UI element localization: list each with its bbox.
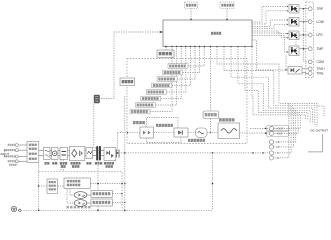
- wire chain rails d: [68, 151, 70, 156]
- label L4 (compensation amp): [133, 121, 136, 124]
- wire chain rails b: [50, 151, 52, 156]
- aux supply block B2a: [47, 179, 57, 193]
- wire input 3 to terminal block: [18, 156, 27, 158]
- relay block K3: [289, 31, 299, 40]
- status terminal strip (dashed): [306, 2, 314, 78]
- wire F7 to U1 bottom: [155, 47, 176, 106]
- wire F2 to U1 bottom: [183, 47, 200, 73]
- label box L1 (delay circuit): [157, 50, 174, 57]
- output terminal -V: [269, 151, 273, 155]
- wire chain rails e: [85, 151, 86, 156]
- wire chain taps to drive: [61, 160, 64, 172]
- wire over-loop B1a to B1b: [147, 118, 179, 129]
- wire sense line S6 (staircase to harness): [252, 47, 306, 120]
- label box B2c: [91, 190, 112, 197]
- breaker block C2: [52, 148, 59, 160]
- wire K1 output to terminal: [299, 8, 308, 10]
- label C3: [60, 162, 62, 165]
- wire harness leg 3 to terminal row: [274, 108, 294, 147]
- wire L3 to feedback row: [210, 119, 212, 133]
- fuse block C1: [44, 148, 51, 160]
- input terminal circle 4: [15, 160, 18, 163]
- svg-text:TMP: TMP: [317, 47, 324, 51]
- rectifier-smoothing block C4: [70, 147, 85, 161]
- wire relay drive 6: [252, 33, 289, 38]
- wire chain rails a: [39, 151, 44, 156]
- relay block K2: [289, 18, 299, 27]
- output terminal +OUT: [269, 126, 273, 130]
- wire relay common bus: [304, 9, 309, 62]
- wire relay3 to relay4 link: [295, 42, 297, 47]
- trigger coupler Q5: [288, 67, 302, 75]
- relay block K1: [289, 5, 299, 14]
- wire U1 to L3: [210, 47, 212, 112]
- svg-text:LOW: LOW: [317, 20, 324, 24]
- net flag box SIG2 (dashed label, top): [220, 2, 234, 9]
- wire harness leg 4 to terminal row: [274, 110, 296, 142]
- label L5 (current detect board): [156, 124, 159, 127]
- wire F5 to U1 bottom: [166, 47, 186, 93]
- wire B2b to PC2: [67, 189, 74, 203]
- wire Q5 to TRG+: [302, 68, 308, 70]
- bracket marks 100V/200V rows: [5, 150, 7, 156]
- wire F8 to U1 bottom: [150, 47, 172, 112]
- op-amp block B1a (compensation): [140, 127, 154, 138]
- earth terminal: [11, 206, 16, 211]
- wire F1 to U1 bottom: [188, 47, 204, 67]
- wire SIG1 to main board: [190, 9, 192, 21]
- label L7 (voltage mode): [219, 118, 222, 121]
- wire rail to ground return: [212, 153, 214, 210]
- output rectifier block C6: [104, 148, 116, 161]
- label C5: [87, 162, 89, 165]
- input terminal block TB1: [27, 142, 39, 163]
- svg-text:+S: +S: [276, 140, 280, 144]
- wire row1 left feed: [250, 127, 269, 129]
- label input terminal 1: [8, 144, 10, 146]
- wire W1 feedback (U1 to primary): [100, 32, 163, 99]
- photocoupler PC2: [74, 200, 87, 207]
- oscillator block B1d (voltage mode): [218, 123, 240, 139]
- input terminal circle 1: [15, 144, 18, 147]
- label photo coupler: [67, 206, 69, 209]
- main control board U1: [163, 20, 252, 47]
- svg-text:TRG-: TRG-: [317, 72, 325, 76]
- label box B2d: [91, 199, 112, 206]
- ground wire terminal circle: [19, 209, 21, 211]
- wire feedback row segment a: [127, 132, 140, 134]
- wire under-loop B1a to B1b: [147, 137, 182, 143]
- wire transformer secondary to ground: [97, 161, 99, 211]
- svg-text:+OUT: +OUT: [276, 127, 283, 131]
- leader line DC OUTPUT: [308, 134, 323, 152]
- wire F6 to U1 bottom: [161, 47, 181, 99]
- wire K2 output to terminal: [299, 21, 308, 23]
- terminal circle COM: [308, 60, 312, 64]
- input terminal circle 2: [15, 149, 18, 152]
- net flag F8 (primary-side signal #8): [130, 109, 150, 114]
- net flag F2 (primary-side signal #2): [163, 70, 183, 75]
- wire harness leg 5 to terminal row: [274, 113, 298, 134]
- photocoupler PC1: [74, 192, 87, 199]
- wire feedback row to output bus: [240, 132, 270, 134]
- wire relay drive 3: [252, 20, 289, 27]
- wire B2d to feedback vertical: [112, 201, 125, 203]
- capacitor on rail: [117, 150, 120, 158]
- wire F3 to U1 bottom: [177, 47, 195, 80]
- wire relay drive 4: [252, 24, 289, 28]
- wire TB1 down to ground: [38, 162, 40, 210]
- wire chain rails g: [101, 151, 104, 156]
- svg-text:COM: COM: [317, 60, 325, 64]
- transformer T1: [96, 146, 98, 161]
- wire harness leg 6 to terminal row: [274, 115, 301, 128]
- terminal label box row1: [267, 125, 289, 131]
- wire sense line S1 (staircase to harness): [217, 47, 317, 128]
- terminal label box row2: [267, 131, 289, 137]
- wire SIG2 to main board: [226, 9, 228, 21]
- wire input 1 to terminal block: [18, 144, 27, 146]
- label input terminal 3: [4, 155, 6, 157]
- wire K3 output to terminal: [299, 34, 308, 36]
- wire CN1 to transformer: [94, 104, 96, 149]
- wire B2b to feedback verticals: [90, 183, 125, 185]
- label under input row4: [9, 164, 11, 166]
- wire sense line S5 (staircase to harness): [245, 47, 308, 121]
- wire Q5 to TRG-: [302, 72, 308, 75]
- wire feedback row segment b: [154, 132, 175, 134]
- wire feedback tap to rail: [118, 133, 128, 153]
- terminal circle TMP: [308, 47, 312, 51]
- output terminal -S: [269, 156, 273, 160]
- wire chain rails f: [93, 151, 97, 156]
- wire stub U1 to L1: [165, 47, 167, 51]
- label T1: [95, 162, 97, 165]
- net flag L3 (voltage detect): [203, 111, 219, 119]
- net flag F4 (primary-side signal #4): [152, 83, 172, 88]
- wire PC1 output: [87, 194, 91, 196]
- terminal circle TRG-: [308, 72, 312, 76]
- long vertical feedback wire: [124, 96, 126, 210]
- wire harness leg 1 to terminal row: [274, 103, 289, 157]
- svg-text:TRP: TRP: [317, 7, 323, 11]
- svg-text:TRG+: TRG+: [317, 67, 326, 71]
- terminal circle LOW: [308, 20, 312, 24]
- terminal circle LPS: [308, 33, 312, 37]
- label C2: [52, 162, 54, 165]
- label box L2 (board name) on E1 edge: [120, 78, 135, 86]
- secondary board enclosure E1 (dashed): [127, 59, 247, 144]
- net flag F1 (primary-side signal #1): [168, 64, 188, 69]
- svg-text:DC OUTPUT: DC OUTPUT: [311, 129, 329, 133]
- drive circuit block B2b: [64, 178, 90, 189]
- terminal circle TRG+: [308, 67, 312, 71]
- noise filter block C3: [60, 148, 68, 160]
- wire harness outer corner: [316, 106, 324, 116]
- wire sense line S2 (staircase to harness): [224, 47, 315, 126]
- label C4: [71, 162, 73, 165]
- net flag box SIG1 (dashed label, top): [185, 2, 198, 9]
- wire B2a to B2b: [57, 185, 64, 187]
- output terminal +S: [269, 140, 273, 144]
- wire relay drive 7: [252, 36, 289, 53]
- label C6: [104, 162, 106, 165]
- wire trigger feed: [252, 40, 288, 70]
- wire B2c to E2 edge: [112, 193, 122, 195]
- label C1: [45, 162, 47, 165]
- wire K4 output to terminal: [299, 48, 308, 50]
- wire relay drive 1: [252, 7, 289, 23]
- wire harness leg 2 to terminal row: [274, 106, 292, 153]
- svg-text:-V: -V: [276, 151, 279, 155]
- wire relay drive 5: [252, 31, 289, 34]
- switching block C5: [86, 148, 93, 159]
- label L6 (current detect circuit): [188, 139, 191, 142]
- output terminal -OUT: [269, 131, 273, 135]
- svg-text:LPS: LPS: [317, 33, 323, 37]
- net flag F5 (primary-side signal #5): [146, 90, 166, 95]
- svg-text:-S: -S: [276, 156, 279, 160]
- svg-text:-OUT: -OUT: [276, 132, 283, 136]
- wire F4 to U1 bottom: [172, 47, 191, 86]
- wire relay4 aux to trigger: [285, 56, 287, 71]
- wire chain rails c: [58, 151, 60, 156]
- wire sense line S3 (staircase to harness): [231, 47, 313, 124]
- svg-text:+V: +V: [276, 145, 280, 149]
- net flag F6 (primary-side signal #6): [141, 96, 161, 101]
- net flag F3 (primary-side signal #3): [157, 77, 177, 82]
- wire input 2 to terminal block: [18, 149, 27, 151]
- wire relay drive 2: [252, 11, 289, 24]
- wire sense line S4 (staircase to harness): [238, 47, 310, 123]
- relay block K4: [289, 46, 299, 56]
- drive enclosure E2 (dashed): [39, 171, 122, 210]
- wire ground line: [21, 209, 213, 211]
- connector CN1: [94, 95, 100, 103]
- wire main output rail: [116, 152, 269, 154]
- label input terminal 4: [8, 160, 10, 162]
- terminal circle TRP: [308, 7, 312, 11]
- label input terminal 2: [4, 149, 6, 151]
- wire B2b to PC1: [70, 189, 74, 195]
- block B1c (isolation amp): [196, 128, 208, 137]
- wire input 4 to terminal block: [18, 160, 27, 162]
- wire PC2 output: [87, 202, 91, 204]
- output terminal +V: [269, 145, 273, 149]
- net flag F7 (primary-side signal #7): [135, 103, 155, 108]
- wire feedback row segment d: [207, 132, 218, 134]
- wire input to B2a: [39, 185, 48, 187]
- input terminal circle 3: [15, 155, 18, 158]
- wire feedback row segment c: [188, 132, 196, 134]
- block B1b (current detector): [174, 128, 188, 137]
